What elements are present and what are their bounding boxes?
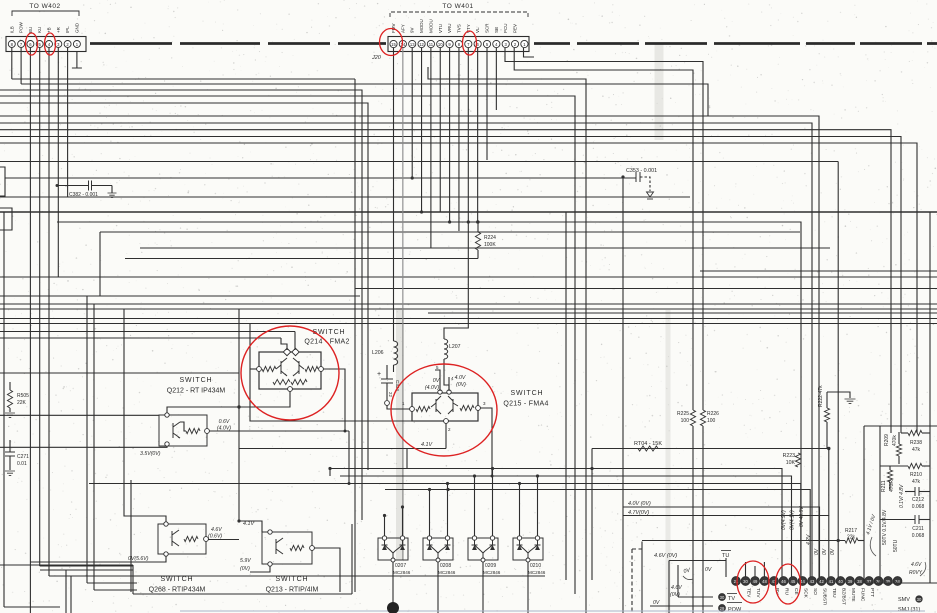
- svg-text:(0V): (0V): [670, 592, 680, 598]
- wire D208 right pin up: [447, 484, 449, 537]
- svg-text:SUBSTI: SUBSTI: [822, 588, 828, 605]
- svg-text:R505: R505: [17, 393, 29, 399]
- diode pack D210 diodes: [517, 540, 541, 560]
- ground R222: [845, 399, 856, 403]
- dashed board-edge bar segment: [338, 42, 386, 45]
- capacitor C211: [915, 515, 919, 524]
- svg-text:BU: BU: [28, 27, 33, 33]
- diode pack D209 diodes: [472, 540, 496, 560]
- dashed board-edge bar segment: [714, 42, 800, 45]
- connector pin 35: [884, 577, 893, 586]
- svg-text:0.068: 0.068: [912, 504, 925, 510]
- svg-text:0V: 0V: [705, 567, 712, 573]
- svg-text:22K: 22K: [17, 400, 27, 406]
- dashed board-edge bar segment: [534, 42, 570, 45]
- wire corner: [49, 575, 545, 577]
- wire J401 pin5 drop: [486, 48, 488, 160]
- transistor Q212: [173, 422, 180, 438]
- switch Q215 bottom pin: [444, 419, 449, 424]
- svg-text:MC2846: MC2846: [528, 570, 546, 575]
- svg-text:0208: 0208: [440, 563, 451, 569]
- svg-text:C212: C212: [912, 497, 924, 503]
- connector J401 pin 9: [446, 40, 453, 47]
- svg-text:30: 30: [917, 597, 922, 602]
- svg-text:0209: 0209: [485, 563, 496, 569]
- wire J402 pin6 drop: [29, 48, 31, 613]
- resistor R223: [795, 453, 800, 467]
- section border: [40, 569, 133, 571]
- svg-text:0.01: 0.01: [17, 461, 27, 467]
- dashed board-edge bar segment: [860, 42, 922, 45]
- svg-text:GND: GND: [74, 22, 79, 33]
- svg-text:22: 22: [388, 392, 393, 397]
- connector pin 40: [836, 577, 845, 586]
- resistor RT04: [638, 446, 658, 451]
- connector J402 pin 2: [64, 41, 71, 48]
- connector pin 49: [751, 577, 760, 586]
- svg-text:50TU: 50TU: [893, 539, 899, 552]
- svg-text:38: 38: [857, 579, 862, 584]
- resistor in Q215 right arm: [460, 405, 474, 410]
- diode pack D208 box: [423, 538, 453, 560]
- wire D208 left pin up: [429, 490, 431, 537]
- svg-text:R225: R225: [677, 411, 689, 417]
- svg-text:SB: SB: [494, 27, 499, 33]
- svg-text:PCU: PCU: [503, 23, 508, 33]
- wire Q212 out 0.6V: [209, 430, 349, 432]
- connector J401 pin 12: [418, 40, 425, 47]
- svg-text:C211: C211: [912, 526, 924, 532]
- svg-text:46: 46: [781, 579, 786, 584]
- wire R217 feed corner: [641, 542, 643, 613]
- svg-text:TEU: TEU: [831, 588, 837, 598]
- svg-text:R223: R223: [783, 453, 796, 459]
- svg-text:RU: RU: [784, 588, 790, 595]
- red annotation J401 pin15: [380, 29, 403, 56]
- switch Q212 pins: [165, 413, 169, 417]
- connector pin 38: [855, 577, 864, 586]
- wire 4.1V to Q213: [239, 521, 262, 532]
- transistor Q213: [276, 538, 283, 554]
- wire J401 pin4 drop: [495, 48, 497, 110]
- transistor Q215a: [431, 396, 441, 414]
- svg-text:12: 12: [419, 42, 424, 47]
- svg-text:(0V): (0V): [456, 382, 466, 388]
- dashed board-edge bar segment: [927, 42, 937, 45]
- svg-text:4.0V: 4.0V: [455, 375, 466, 381]
- svg-text:R210: R210: [910, 472, 922, 478]
- svg-text:CE: CE: [793, 588, 799, 595]
- section border: [351, 524, 353, 594]
- diode pack D208 diodes: [427, 540, 451, 560]
- connector pin 45: [789, 577, 798, 586]
- wire Q215 pin3: [480, 408, 492, 476]
- resistor in Q268: [184, 536, 198, 541]
- wire D207 left pin up: [384, 516, 386, 537]
- svg-text:MC2846: MC2846: [393, 570, 411, 575]
- svg-text:SWITCH: SWITCH: [160, 576, 193, 583]
- svg-text:SWITCH: SWITCH: [275, 576, 308, 583]
- diode pack D207 pins: [382, 536, 386, 540]
- wire bus: [355, 288, 937, 290]
- svg-text:Q215 - FMA4: Q215 - FMA4: [503, 401, 548, 408]
- wire bus: [57, 222, 801, 577]
- wire C353 down: [622, 177, 624, 613]
- svg-text:R217: R217: [845, 528, 857, 534]
- svg-text:30: 30: [743, 579, 748, 584]
- wire D210 down: [527, 562, 529, 613]
- svg-text:22k: 22k: [847, 535, 856, 541]
- svg-text:0V: 0V: [830, 548, 836, 555]
- connector J401 pin 1: [521, 40, 528, 47]
- transistor Q214b: [293, 358, 304, 376]
- wire D209 right pin up: [492, 469, 494, 537]
- wire bus band: [428, 312, 937, 314]
- scan artifact streak: [396, 308, 404, 560]
- wire J401 pin7 drop to L207: [444, 48, 468, 339]
- wire D210 left pin up: [519, 484, 521, 537]
- scan artifact streak: [666, 310, 671, 613]
- wire Q215 bottom run: [239, 448, 446, 450]
- wire bus: [0, 130, 891, 433]
- svg-text:POW: POW: [728, 607, 742, 613]
- ink blob: [387, 602, 399, 613]
- connector J401 pin 3: [502, 40, 509, 47]
- wire mid-left: [93, 304, 95, 590]
- switch Q214 outer frame: [259, 352, 321, 389]
- svg-text:TO W402: TO W402: [29, 3, 60, 10]
- wire corner2: [94, 589, 137, 591]
- svg-text:48: 48: [762, 579, 767, 584]
- connector pin 41: [827, 577, 836, 586]
- switch Q214 top pins: [283, 348, 290, 355]
- wire bus: [0, 116, 819, 577]
- wire bus band: [0, 318, 937, 320]
- wire bus: [140, 247, 830, 249]
- resistor R505 22K: [9, 382, 11, 390]
- switch Q215 right pin: [476, 406, 481, 411]
- svg-text:Q268 - RTIP434M: Q268 - RTIP434M: [149, 587, 206, 594]
- wire POW run: [650, 605, 713, 607]
- wire to pin: [837, 162, 839, 578]
- curved arrow right: [920, 562, 926, 576]
- section border: [132, 565, 134, 594]
- svg-text:4.6V (0V): 4.6V (0V): [654, 553, 677, 559]
- curved annotation arrow: [870, 537, 876, 556]
- resistor in Q214 left arm: [262, 366, 276, 371]
- diode pack D207 diodes: [382, 540, 406, 560]
- resistor R238: [908, 430, 922, 435]
- wire J401 pin9 drop: [449, 48, 451, 222]
- switch Q214 bottom pin: [288, 387, 293, 392]
- wire bus: [0, 337, 281, 339]
- svg-text:TO W401: TO W401: [442, 3, 473, 10]
- resistor R226: [700, 410, 705, 426]
- wire bus: [700, 270, 937, 272]
- red annotation J402 pin6: [26, 33, 38, 55]
- wire D210 right pin up: [537, 476, 539, 536]
- svg-text:3.5V(0V): 3.5V(0V): [140, 451, 161, 457]
- wire TU drop: [725, 558, 727, 577]
- svg-text:0210: 0210: [530, 563, 541, 569]
- svg-text:RT04 - 15K: RT04 - 15K: [634, 441, 662, 447]
- connector J401 pin 13: [409, 40, 416, 47]
- switch Q215 outer frame: [412, 393, 478, 421]
- diode pack bottom pin: [391, 558, 395, 562]
- scan artifact streak: [655, 44, 664, 140]
- connector J402 pin 4: [46, 41, 53, 48]
- svg-text:R222-47k: R222-47k: [818, 385, 824, 407]
- connector J401 pin 10: [437, 40, 444, 47]
- wire bus: [0, 123, 812, 577]
- pin circle 29 POW: [719, 605, 726, 612]
- diode pack D210 box: [513, 538, 543, 560]
- wire Q215 pin4 stem: [448, 377, 450, 391]
- switch Q213 box: [262, 532, 312, 564]
- red annotation circle Q215: [391, 364, 497, 456]
- transistor Q214a: [276, 358, 287, 376]
- svg-text:VRU: VRU: [447, 23, 452, 33]
- switch Q268 pins: [164, 522, 168, 526]
- svg-text:TVS: TVS: [456, 24, 461, 33]
- wire D207 down: [392, 562, 394, 613]
- wire Q214 right node: [323, 369, 345, 431]
- svg-text:SCR: SCR: [485, 23, 490, 33]
- wire bus: [0, 276, 937, 278]
- wire J402 pin3 drop: [57, 48, 59, 277]
- resistor in Q214 right arm: [305, 366, 318, 371]
- wire Q214 left node: [250, 368, 257, 370]
- svg-text:5.9V: 5.9V: [240, 558, 251, 564]
- svg-text:MC2846: MC2846: [438, 570, 456, 575]
- wire J401 pin13 drop: [411, 48, 413, 178]
- connector J401 pin 14: [399, 40, 406, 47]
- capacitor C212: [915, 487, 919, 496]
- transistor Q268: [172, 530, 179, 546]
- capacitor C382: [57, 185, 88, 187]
- red annotation J401 pin7: [463, 31, 477, 55]
- wire bus: [0, 90, 362, 520]
- inductor L207: [444, 339, 448, 359]
- connector pin 30: [741, 577, 750, 586]
- svg-text:POW: POW: [19, 21, 24, 33]
- ground C382: [111, 186, 113, 194]
- connector pin 36: [874, 577, 883, 586]
- connector pin 34: [893, 577, 902, 586]
- svg-text:C271: C271: [17, 454, 29, 460]
- section border: [0, 564, 133, 566]
- svg-text:R226: R226: [707, 411, 719, 417]
- svg-text:0.068: 0.068: [912, 533, 925, 539]
- wire bus: [89, 484, 801, 578]
- wire bus: [0, 143, 917, 433]
- wire node left: [167, 407, 239, 415]
- block border: [864, 425, 937, 427]
- connector J401 pin 6: [474, 40, 481, 47]
- svg-text:13: 13: [410, 42, 415, 47]
- connector pin 37: [865, 577, 874, 586]
- svg-text:42: 42: [819, 579, 824, 584]
- svg-text:0V: 0V: [814, 548, 820, 555]
- svg-text:Q212 - RT IP434M: Q212 - RT IP434M: [167, 388, 226, 395]
- resistor R211: [887, 470, 892, 482]
- wire D207 right pin up: [402, 507, 404, 536]
- svg-text:SMJ (31): SMJ (31): [898, 607, 920, 613]
- svg-text:AFY: AFY: [400, 24, 405, 33]
- wire bus: [623, 507, 820, 577]
- wire bus: [0, 295, 360, 297]
- svg-text:14: 14: [401, 42, 406, 47]
- svg-text:TUV: TUV: [755, 588, 761, 598]
- wire bus corner: [828, 449, 830, 516]
- transistor Q215b: [448, 396, 458, 414]
- wire Q215 pin2: [445, 423, 447, 449]
- capacitor C334: [386, 365, 388, 379]
- svg-text:(4.0V): (4.0V): [217, 426, 231, 432]
- svg-text:MC2846: MC2846: [483, 570, 501, 575]
- svg-text:J20: J20: [371, 55, 382, 61]
- svg-text:+B: +B: [47, 27, 52, 33]
- connector J402 pin 6: [27, 41, 34, 48]
- svg-text:9V: 9V: [410, 27, 415, 33]
- junction: [56, 184, 59, 187]
- section border dash-dot: [631, 549, 633, 613]
- switch Q212 box: [159, 415, 207, 446]
- switch Q213 pins: [268, 530, 272, 534]
- wire J401 pin1 stub: [524, 48, 535, 57]
- wire bus: [0, 161, 838, 163]
- connector pin 47: [770, 577, 779, 586]
- wire J401 pin10 drop: [439, 48, 441, 212]
- capacitor C353: [5, 177, 636, 179]
- connector J401 pin 5: [483, 40, 490, 47]
- wire bus band: [0, 303, 937, 305]
- svg-text:FUNC: FUNC: [860, 588, 866, 602]
- wire bus: [0, 211, 937, 213]
- connector J401 pin 2: [511, 40, 518, 47]
- svg-text:15: 15: [391, 42, 396, 47]
- wire TV corner: [677, 565, 679, 597]
- svg-text:R238: R238: [910, 440, 922, 446]
- svg-text:4.7V(0V): 4.7V(0V): [628, 510, 649, 516]
- connector J401 pin 7: [465, 40, 472, 47]
- svg-text:4.1V: 4.1V: [421, 442, 433, 448]
- wire bus 373: [0, 372, 239, 374]
- wire bus band: [0, 308, 937, 310]
- svg-text:R224: R224: [484, 235, 496, 241]
- svg-text:11: 11: [429, 42, 434, 47]
- resistor R217: [845, 538, 858, 543]
- pin circle 30 TV: [719, 594, 726, 601]
- svg-text:43: 43: [810, 579, 815, 584]
- wire bus: [340, 476, 792, 577]
- dashed board-edge bar segment: [645, 42, 707, 45]
- svg-text:0V 40.9V: 0V 40.9V: [799, 506, 805, 527]
- wire D209 down: [482, 562, 484, 613]
- wire J402 pin8 drop: [11, 48, 13, 79]
- svg-text:0V(5.6V): 0V(5.6V): [128, 556, 149, 562]
- svg-text:30: 30: [720, 595, 725, 600]
- wire exit bottom: [70, 576, 72, 613]
- diode pack D210 pins: [517, 536, 521, 540]
- svg-text:L207: L207: [449, 344, 461, 350]
- wire bus: [385, 490, 810, 578]
- svg-text:PTT: PTT: [869, 588, 875, 597]
- resistor in Q214 inner2: [291, 379, 307, 384]
- wire L207 down: [444, 359, 449, 390]
- wire Q213 out: [314, 548, 340, 592]
- svg-text:(4.0V): (4.0V): [425, 385, 439, 391]
- diode pack bottom pin: [526, 558, 530, 562]
- svg-text:0.6V: 0.6V: [219, 419, 230, 425]
- wire Q212 lower-left: [0, 446, 167, 447]
- wire bottom-left: [4, 606, 60, 608]
- svg-text:SCK: SCK: [803, 588, 809, 599]
- junction: [328, 467, 331, 470]
- wire mid-left: [130, 480, 132, 592]
- connector J402 pin 7: [18, 41, 25, 48]
- svg-text:IPL: IPL: [65, 26, 70, 33]
- connector pin 48: [760, 577, 769, 586]
- switch Q214 left pin: [257, 367, 262, 372]
- resistor in Q212: [186, 428, 200, 433]
- svg-text:VL: VL: [475, 27, 480, 33]
- wire RT04 run: [592, 448, 829, 450]
- svg-text:SMV: SMV: [898, 597, 910, 603]
- switch Q268 box: [158, 524, 206, 554]
- svg-text:R211: R211: [881, 480, 887, 492]
- wire bus: [99, 232, 101, 296]
- svg-text:4.6V: 4.6V: [671, 585, 682, 591]
- junction RT04: [827, 447, 830, 450]
- junction: [237, 405, 240, 408]
- wire corner: [40, 565, 133, 567]
- wire R222 to ground: [827, 392, 850, 398]
- wire D209 left pin up: [474, 476, 476, 536]
- svg-text:41: 41: [829, 579, 834, 584]
- svg-text:10: 10: [438, 42, 443, 47]
- connector J401 pin 15: [390, 40, 397, 47]
- diode pack D207 box: [378, 538, 408, 560]
- wire bus: [12, 78, 355, 80]
- wire J402 pin4 drop: [48, 48, 50, 576]
- wire J401 pin2 to right bus: [514, 48, 693, 410]
- svg-text:Q213 - RTIP/4IM: Q213 - RTIP/4IM: [266, 587, 319, 594]
- svg-text:45: 45: [791, 579, 796, 584]
- svg-text:TV: TV: [728, 596, 735, 602]
- wire bus: [0, 137, 901, 427]
- svg-text:4.6V: 4.6V: [211, 527, 222, 533]
- diode pack D209 pins: [472, 536, 476, 540]
- wire Q268 top: [124, 516, 166, 522]
- diode pack D208 pins: [427, 536, 431, 540]
- resistor R222: [826, 392, 828, 408]
- switch Q215 top pins: [438, 390, 442, 394]
- wire D208 down: [437, 562, 439, 613]
- wire bus: [0, 103, 368, 470]
- dashed board-edge bar segment: [180, 42, 260, 45]
- svg-text:47k: 47k: [912, 447, 921, 453]
- svg-text:+: +: [377, 371, 381, 378]
- svg-text:MUTE: MUTE: [850, 588, 856, 602]
- svg-text:47k: 47k: [912, 479, 921, 485]
- svg-text:PEV: PEV: [513, 24, 518, 33]
- svg-text:BZ/BST: BZ/BST: [841, 588, 847, 605]
- wire left edge: [3, 212, 5, 607]
- connector pin 42: [817, 577, 826, 586]
- connector J401 body: [388, 37, 529, 52]
- resistor R209: [896, 444, 901, 456]
